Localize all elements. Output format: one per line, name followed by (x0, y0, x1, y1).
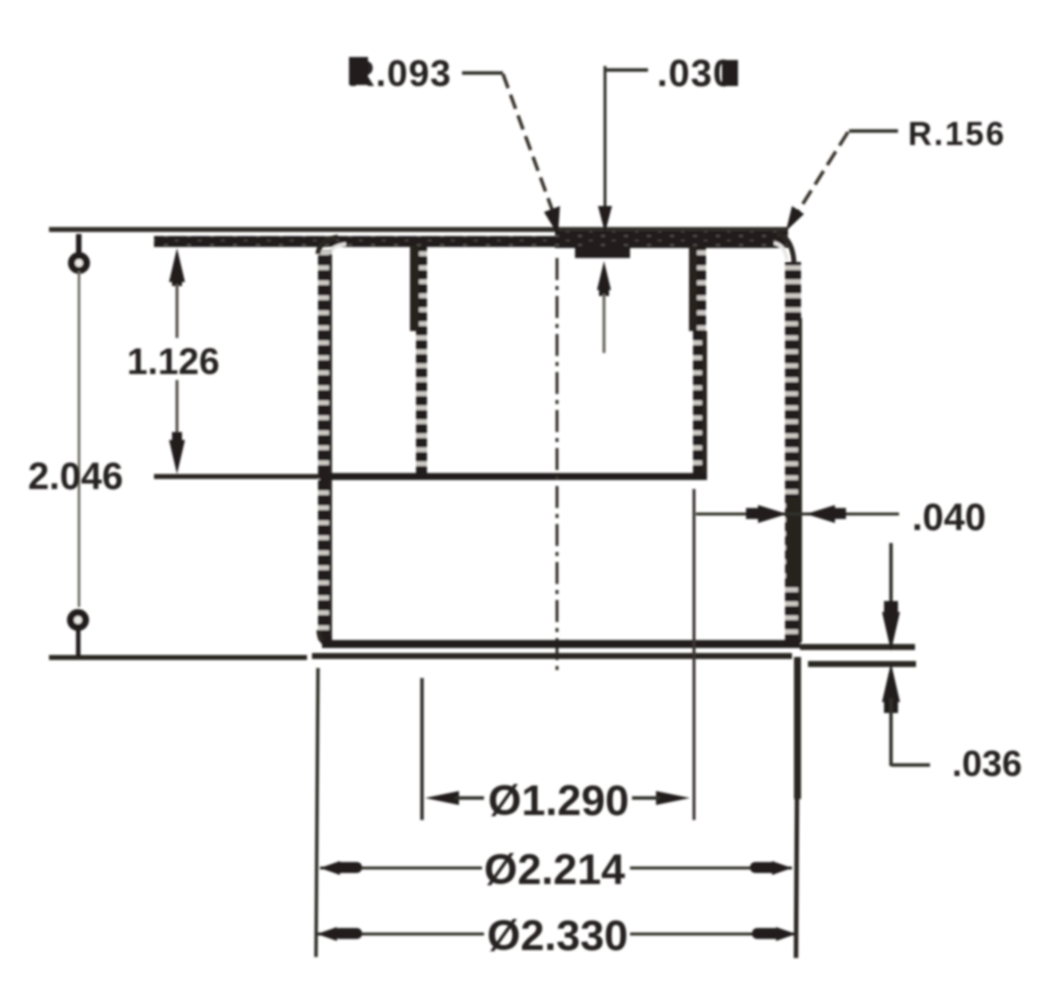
left outer wall inner solid line (329, 254, 332, 636)
part inner bottom line (322, 640, 800, 648)
left bottom extension line (49, 655, 307, 660)
dia 1.290 left extension (420, 678, 424, 820)
right outer wall solid line (798, 318, 802, 642)
leader .030 (604, 66, 607, 206)
leader R.156 (849, 129, 898, 133)
top surface thick line (154, 236, 555, 247)
dim 2.046 vertical (76, 234, 82, 256)
counterbore bottom line (154, 474, 320, 479)
svg-text:.040: .040 (912, 497, 986, 539)
bore right wall (hatched) (693, 246, 706, 478)
right outer wall (hatched) (785, 262, 801, 645)
top-right corner white notch (774, 243, 787, 260)
top-left corner arc (318, 237, 338, 254)
bottom left extension line (316, 668, 318, 957)
lower right rim line (808, 661, 916, 667)
left outer wall (hatched) (318, 250, 332, 640)
centerline (556, 258, 559, 676)
svg-text:Ø2.330: Ø2.330 (487, 912, 628, 960)
leader R.093 (462, 71, 503, 75)
bottom-left corner arc (319, 630, 332, 645)
.040 left arrow (758, 505, 787, 523)
bore left wall (hatched) (416, 246, 427, 477)
bore right wall upper solid bar (689, 246, 697, 331)
bore right wall lower solid edge (702, 331, 707, 478)
bore left wall upper solid bar (410, 246, 419, 331)
svg-text:.036: .036 (952, 743, 1022, 784)
bottom right extension line (794, 657, 801, 799)
dim 1.126 bottom arrow (169, 440, 185, 474)
dim .040 extension line (693, 489, 696, 820)
part outer bottom line (312, 653, 792, 659)
dim dia2.330 line+arrows (317, 933, 484, 936)
svg-text:Ø2.214: Ø2.214 (484, 846, 625, 894)
top-right corner arc (777, 234, 794, 262)
svg-text:1.126: 1.126 (127, 341, 220, 382)
top extension line (49, 227, 788, 232)
raised pad .030 (575, 246, 630, 258)
dim dia2.214 line+arrows (320, 867, 482, 870)
svg-text:R.156: R.156 (908, 115, 1006, 152)
dim .036 vertical (889, 543, 893, 608)
dim dia1.290 line+arrows (425, 791, 459, 805)
svg-text:2.046: 2.046 (28, 456, 123, 498)
.040 right arrow (806, 505, 835, 523)
corner notch top-left (white arc) (326, 244, 346, 259)
right outer wall dark mid section (786, 498, 801, 586)
dim .040 line (696, 513, 899, 516)
svg-text:Ø1.290: Ø1.290 (488, 777, 629, 825)
dim 1.126 vertical, top arrow (169, 248, 185, 282)
right inner-bottom extension (800, 644, 915, 650)
